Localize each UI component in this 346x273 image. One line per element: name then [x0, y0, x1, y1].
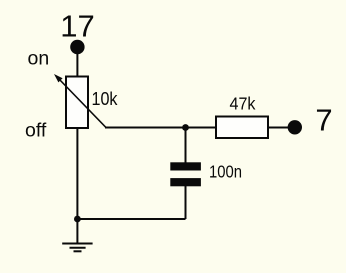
capacitor C1 top plate [170, 162, 201, 170]
wire wiper to junction node [105, 127, 186, 129]
ground symbol [62, 219, 92, 251]
wire node17 to potentiometer top [76, 53, 78, 77]
svg-text:100n: 100n [209, 162, 242, 182]
terminal pad node 17 [70, 40, 84, 54]
wire capacitor bottom to ground rail [185, 186, 187, 219]
potentiometer R1 body 10k [66, 77, 88, 129]
terminal pad node 7 [288, 120, 302, 134]
svg-text:17: 17 [60, 9, 94, 44]
potentiometer wiper arrow [54, 74, 106, 128]
svg-text:10k: 10k [92, 89, 119, 109]
wire resistor to node 7 [268, 127, 290, 129]
svg-text:47k: 47k [230, 94, 256, 114]
wire potentiometer bottom to ground junction [76, 128, 78, 219]
wire junction to capacitor top [185, 128, 187, 164]
svg-text:on: on [28, 48, 50, 70]
svg-text:off: off [25, 120, 47, 142]
junction node dot [182, 124, 189, 131]
ground rail wire [77, 218, 185, 220]
resistor R2 body 47k [216, 117, 268, 139]
svg-text:7: 7 [315, 103, 332, 138]
ground junction dot [74, 216, 81, 223]
wire junction to resistor [186, 127, 216, 129]
capacitor C1 bottom plate [170, 178, 201, 186]
